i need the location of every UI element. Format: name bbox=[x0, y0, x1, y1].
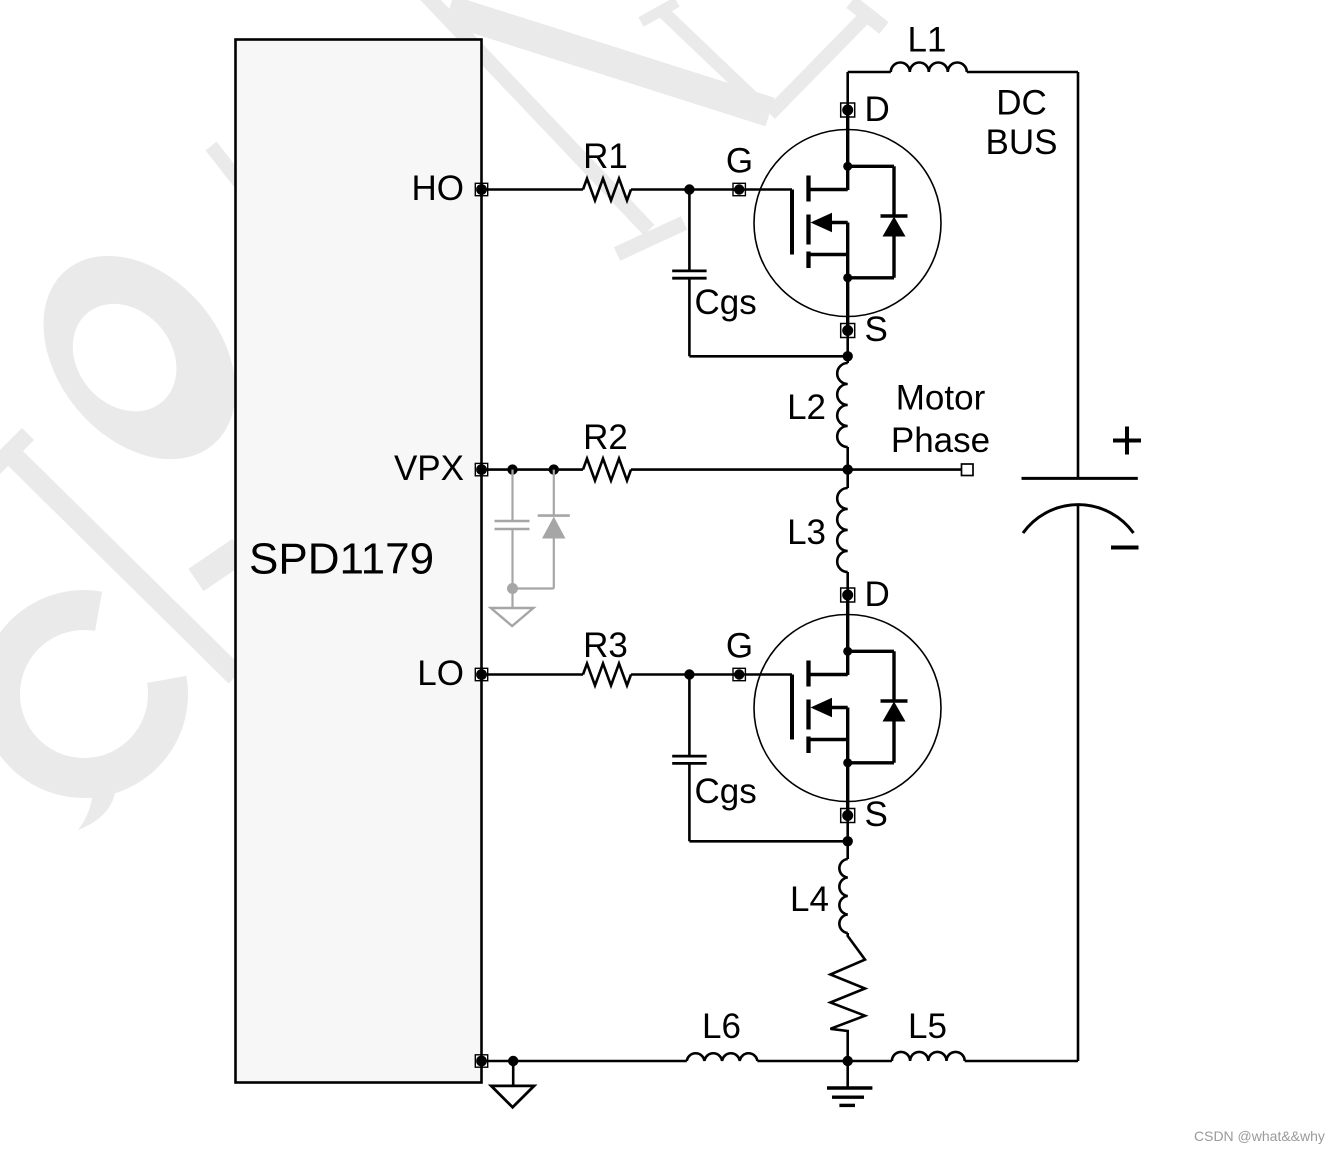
svg-text:Motor: Motor bbox=[896, 379, 986, 418]
node junction LO/Cgs bbox=[684, 669, 694, 679]
inductor L2 bbox=[787, 363, 848, 447]
ground chip (open triangle) bbox=[491, 1061, 534, 1107]
svg-text:L4: L4 bbox=[790, 880, 829, 919]
svg-text:G: G bbox=[726, 142, 753, 181]
transistor Q1 (high-side NMOS with body diode) bbox=[726, 90, 941, 349]
node VPX junction 2 bbox=[549, 464, 559, 474]
node ground junction left bbox=[508, 1056, 518, 1066]
wire LO net bbox=[482, 673, 793, 676]
capacitor Cgs (high side) bbox=[672, 190, 848, 357]
wire Q1 drain to top rail bbox=[846, 72, 849, 110]
wire bottom ground rail bbox=[482, 1060, 1079, 1063]
pin VPX bbox=[394, 449, 488, 488]
node junction HO/Cgs bbox=[684, 184, 694, 194]
svg-text:Cgs: Cgs bbox=[695, 283, 757, 322]
capacitor Cgs (low side) bbox=[672, 675, 848, 842]
pin LO bbox=[417, 654, 487, 693]
svg-text:SPD1179: SPD1179 bbox=[249, 535, 434, 584]
svg-text:L3: L3 bbox=[787, 513, 826, 552]
svg-text:HO: HO bbox=[412, 169, 465, 208]
wire HO net bbox=[482, 188, 793, 191]
svg-text:DC: DC bbox=[996, 84, 1047, 123]
svg-text:L6: L6 bbox=[702, 1007, 741, 1046]
capacitor DC bus (polarized) bbox=[1022, 427, 1142, 1062]
pin GND bbox=[475, 1055, 487, 1067]
svg-text:Phase: Phase bbox=[891, 421, 990, 460]
inductor L4 bbox=[790, 859, 848, 933]
pin HO bbox=[412, 169, 488, 208]
wire DC bus top bbox=[848, 72, 1078, 478]
wire L2 to motor node bbox=[846, 447, 849, 470]
node VPX junction 1 bbox=[507, 464, 517, 474]
resistor shunt (unlabeled) bbox=[830, 933, 865, 1061]
node gray junction bbox=[507, 583, 518, 594]
svg-text:R2: R2 bbox=[583, 418, 628, 457]
capacitor internal (gray) bbox=[495, 470, 530, 589]
svg-text:BUS: BUS bbox=[986, 123, 1058, 162]
svg-text:L1: L1 bbox=[908, 21, 947, 60]
resistor R2 bbox=[583, 418, 631, 481]
svg-text:CSDN @what&&why: CSDN @what&&why bbox=[1194, 1128, 1325, 1144]
node ground junction center bbox=[843, 1056, 853, 1066]
wire motor node to L3 and L3 to Q2 drain bbox=[846, 470, 849, 595]
svg-text:L5: L5 bbox=[908, 1007, 947, 1046]
resistor R1 bbox=[583, 137, 631, 201]
node S1 junction bbox=[843, 351, 853, 361]
resistor R3 bbox=[583, 626, 631, 686]
node motor junction bbox=[843, 464, 853, 474]
svg-text:D: D bbox=[865, 90, 890, 129]
wire VPX net bbox=[482, 468, 962, 471]
svg-text:VPX: VPX bbox=[394, 449, 464, 488]
svg-text:R1: R1 bbox=[583, 137, 628, 176]
label DC BUS bbox=[986, 84, 1058, 163]
inductor L5 bbox=[892, 1007, 965, 1061]
IC U1 SPD1179 body bbox=[236, 40, 482, 1083]
inductor L3 bbox=[787, 488, 848, 572]
svg-text:L2: L2 bbox=[787, 388, 826, 427]
svg-text:S: S bbox=[865, 310, 888, 349]
wire S2 to L4 bbox=[846, 816, 849, 860]
svg-text:LO: LO bbox=[417, 654, 464, 693]
ground internal (gray chassis) bbox=[491, 589, 534, 627]
inductor L1 bbox=[891, 21, 967, 73]
transistor Q2 (low-side NMOS with body diode) bbox=[726, 575, 941, 834]
wire S1 to L2 bbox=[846, 331, 849, 364]
svg-text:Cgs: Cgs bbox=[695, 772, 757, 811]
terminal Motor Phase bbox=[891, 379, 990, 476]
svg-text:R3: R3 bbox=[583, 626, 628, 665]
wire gray return bbox=[513, 587, 554, 589]
diode internal (gray) bbox=[538, 470, 570, 589]
ground earth (center) bbox=[827, 1061, 872, 1105]
inductor L6 bbox=[687, 1007, 758, 1061]
node S2 junction bbox=[843, 836, 853, 846]
